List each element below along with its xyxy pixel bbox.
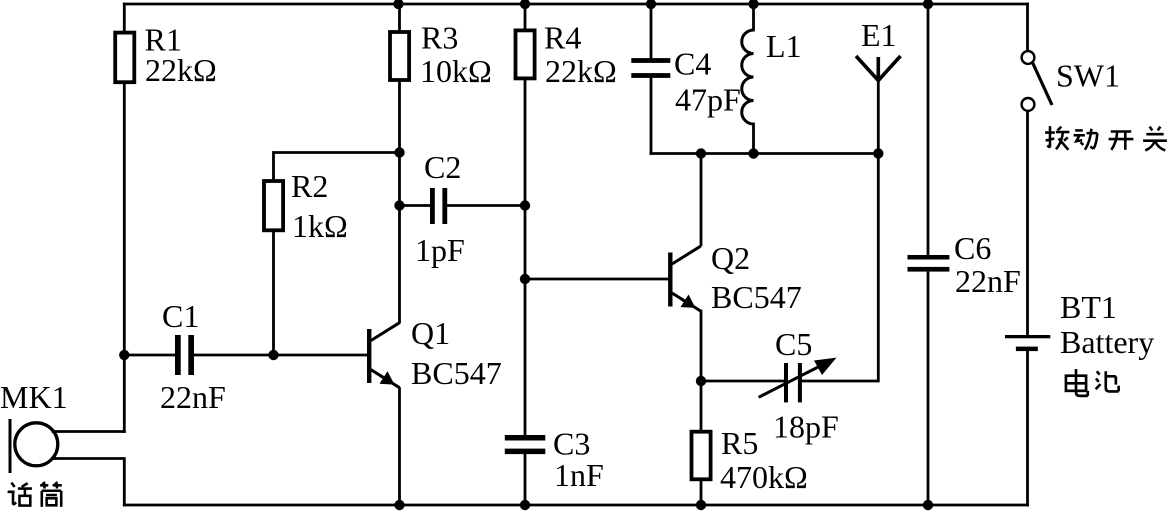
svg-text:C4: C4 (674, 46, 711, 82)
svg-text:22nF: 22nF (955, 263, 1021, 299)
svg-text:L1: L1 (766, 28, 802, 64)
svg-text:E1: E1 (861, 17, 897, 53)
svg-text:R2: R2 (291, 168, 328, 204)
svg-text:SW1: SW1 (1056, 58, 1120, 94)
svg-text:1nF: 1nF (554, 457, 604, 493)
svg-text:R5: R5 (721, 425, 758, 461)
svg-text:BC547: BC547 (711, 279, 802, 315)
svg-text:BT1: BT1 (1060, 289, 1117, 325)
svg-text:18pF: 18pF (773, 409, 839, 445)
svg-text:22nF: 22nF (160, 379, 226, 415)
svg-text:10kΩ: 10kΩ (420, 53, 492, 89)
svg-text:C2: C2 (424, 149, 461, 185)
svg-text:C6: C6 (954, 230, 991, 266)
svg-text:22kΩ: 22kΩ (545, 53, 617, 89)
svg-text:C1: C1 (162, 298, 199, 334)
svg-text:1kΩ: 1kΩ (292, 208, 348, 244)
svg-text:BC547: BC547 (411, 355, 502, 391)
svg-text:1pF: 1pF (415, 232, 465, 268)
svg-text:Q1: Q1 (411, 315, 450, 351)
svg-text:22kΩ: 22kΩ (145, 52, 217, 88)
svg-text:47pF: 47pF (675, 82, 741, 118)
svg-text:R3: R3 (421, 19, 458, 55)
svg-text:R4: R4 (544, 19, 581, 55)
svg-text:470kΩ: 470kΩ (720, 459, 808, 495)
svg-text:Battery: Battery (1060, 324, 1154, 360)
svg-text:Q2: Q2 (711, 240, 750, 276)
svg-text:C5: C5 (775, 326, 812, 362)
svg-text:MK1: MK1 (0, 379, 68, 415)
